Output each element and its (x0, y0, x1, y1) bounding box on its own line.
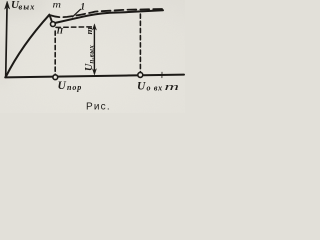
svg-text:о вх: о вх (147, 84, 163, 93)
svg-text:U: U (58, 80, 67, 92)
rotated label Up.vyh t along dimension arrow (84, 27, 96, 71)
circle on x-axis at Uo.vh.t (138, 72, 143, 77)
circle on x-axis at Upor (53, 75, 58, 80)
svg-text:вых: вых (19, 3, 36, 12)
svg-text:m: m (165, 82, 180, 93)
dashed curve 1 (ideal characteristic) (51, 9, 163, 17)
dashed horizontal line at knee level (56, 26, 93, 29)
svg-text:m: m (53, 1, 62, 11)
svg-text:1: 1 (81, 2, 86, 12)
paper background (0, 0, 185, 113)
knee point circle P (51, 22, 56, 27)
leader line from label 1 (73, 9, 81, 16)
falling segment from peak down to knee circle (49, 15, 52, 22)
dashed vertical line from plateau to x-axis (right) (139, 14, 141, 72)
x-axis (5, 75, 184, 78)
svg-text:пор: пор (67, 83, 82, 92)
y-axis (6, 8, 7, 77)
svg-text:П: П (56, 26, 64, 36)
steep rising segment of transfer curve (6, 15, 50, 77)
shallow segment after knee and plateau (solid curve) (55, 10, 163, 23)
svg-text:m: m (85, 27, 94, 35)
svg-text:Рис.: Рис. (86, 102, 111, 113)
dashed vertical line from knee to x-axis (54, 31, 56, 75)
scan shading top-left corner (0, 0, 46, 18)
tick on x-axis at end of plateau (161, 72, 163, 77)
dimension arrowhead top (92, 24, 96, 30)
dimension arrow line Up.vyh.t (93, 27, 95, 73)
svg-text:U: U (137, 81, 146, 93)
y-axis arrowhead (5, 1, 10, 9)
svg-text:п.вых: п.вых (89, 45, 96, 64)
dimension arrowhead bottom (92, 69, 96, 75)
